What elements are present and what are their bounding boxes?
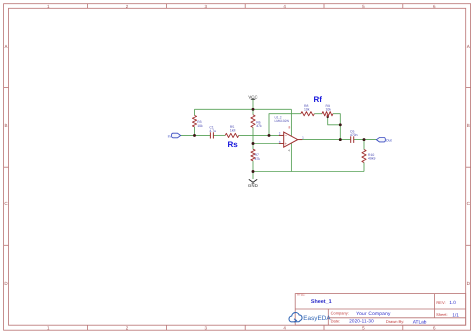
svg-text:Rf: Rf [314, 95, 323, 104]
svg-text:Sheet:: Sheet: [436, 312, 448, 317]
svg-text:A: A [467, 44, 470, 49]
svg-text:LM6132N: LM6132N [275, 119, 290, 123]
svg-text:Drawn By:: Drawn By: [386, 319, 404, 324]
svg-text:2020-11-30: 2020-11-30 [349, 319, 374, 324]
svg-text:EasyEDA: EasyEDA [303, 315, 331, 322]
svg-text:47k: 47k [255, 157, 261, 161]
svg-text:GND: GND [248, 183, 258, 188]
svg-text:470n: 470n [350, 133, 358, 137]
svg-text:TITLE:: TITLE: [296, 293, 305, 297]
svg-text:1k8: 1k8 [230, 129, 236, 133]
svg-text:Your Company: Your Company [356, 311, 391, 317]
svg-text:In: In [168, 134, 171, 138]
svg-text:8: 8 [289, 126, 291, 130]
svg-text:B: B [4, 123, 7, 128]
svg-text:Company:: Company: [331, 310, 349, 315]
svg-text:Rs: Rs [228, 140, 239, 149]
svg-text:A: A [4, 44, 7, 49]
svg-text:49k9: 49k9 [368, 157, 375, 161]
svg-text:Out: Out [386, 138, 392, 142]
svg-text:10k: 10k [304, 108, 310, 112]
svg-text:4.7u: 4.7u [209, 129, 216, 133]
svg-text:VCC: VCC [248, 94, 257, 99]
svg-text:REV:: REV: [436, 300, 445, 305]
svg-text:ATLab: ATLab [413, 319, 427, 325]
svg-text:10k: 10k [197, 124, 203, 128]
svg-text:B: B [467, 123, 470, 128]
svg-text:10k: 10k [326, 108, 332, 112]
svg-text:Sheet_1: Sheet_1 [311, 299, 332, 305]
svg-text:1.0: 1.0 [449, 300, 456, 305]
svg-text:Date:: Date: [331, 319, 341, 324]
svg-text:1/1: 1/1 [452, 312, 459, 317]
svg-text:47k: 47k [256, 124, 262, 128]
